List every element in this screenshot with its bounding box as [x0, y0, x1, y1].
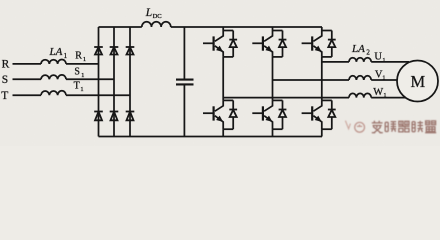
- wire R to bridge leg 1: [66, 63, 99, 65]
- wire bottom junction U-leg upper pair: [223, 56, 233, 58]
- svg-text:W: W: [373, 87, 383, 98]
- IGBT Q5: [252, 100, 272, 129]
- IGBT Q3: [302, 31, 322, 57]
- svg-text:1: 1: [81, 72, 84, 79]
- motor M1 circle: [397, 61, 438, 102]
- wire U-leg bottom-bus drop: [222, 129, 224, 136]
- wire W-leg top-bus drop: [321, 27, 323, 31]
- svg-text:S: S: [2, 74, 8, 86]
- svg-text:1: 1: [382, 57, 385, 64]
- svg-text:T: T: [1, 90, 8, 102]
- IGBT Q4: [203, 100, 223, 129]
- svg-text:1: 1: [83, 56, 86, 63]
- svg-text:R: R: [2, 58, 10, 70]
- inductor LA2 coil on V: [349, 76, 371, 80]
- freewheel diode D9: [328, 31, 336, 57]
- svg-text:1: 1: [64, 52, 68, 60]
- watermark logo check mark: [345, 121, 350, 129]
- wire phase V tap: [273, 79, 350, 81]
- svg-text:2: 2: [366, 49, 370, 57]
- svg-text:DC: DC: [153, 13, 162, 20]
- svg-text:L: L: [145, 7, 152, 19]
- freewheel diode D12: [328, 100, 336, 129]
- wire phase V to motor: [371, 79, 399, 81]
- wire R input line: [13, 63, 42, 65]
- wire bottom junction V-leg upper pair: [273, 56, 283, 58]
- IGBT Q2: [252, 31, 272, 57]
- inductor LA2 coil on W: [349, 93, 371, 97]
- wire top junction W-leg upper pair: [322, 30, 332, 32]
- freewheel diode D11: [279, 100, 287, 129]
- svg-text:LA: LA: [351, 43, 365, 55]
- IGBT Q6: [302, 100, 322, 129]
- svg-text:1: 1: [383, 92, 386, 99]
- inductor LA1 coil on T: [41, 91, 66, 95]
- wire V-leg mid vertical: [272, 57, 274, 101]
- wire top junction U-leg lower pair: [223, 99, 233, 101]
- wire top junction U-leg upper pair: [223, 30, 233, 32]
- wire rectifier leg 1 vertical: [98, 27, 100, 137]
- wire bottom junction U-leg lower pair: [223, 128, 233, 130]
- inductor LA1 coil on S: [41, 75, 66, 79]
- wire V-leg bottom-bus drop: [272, 129, 274, 136]
- freewheel diode D8: [279, 31, 287, 57]
- wire top junction V-leg upper pair: [273, 30, 283, 32]
- wire bottom junction W-leg upper pair: [322, 56, 332, 58]
- wire T input line: [13, 94, 42, 96]
- paper background: [0, 0, 440, 146]
- svg-text:T: T: [74, 81, 80, 92]
- wire top junction V-leg lower pair: [273, 99, 283, 101]
- wire S input line: [13, 78, 42, 80]
- wire phase W tap: [223, 97, 349, 99]
- capacitor C1 branch top wire: [183, 27, 185, 79]
- wire S to bridge leg 2: [66, 78, 114, 80]
- diode D6 bottom leg3: [126, 112, 135, 121]
- wire V-leg top-bus drop: [272, 27, 274, 31]
- wire bottom DC bus: [99, 136, 323, 138]
- wire phase U tap: [322, 61, 349, 63]
- diode D5 bottom leg2: [110, 112, 119, 121]
- svg-text:1: 1: [382, 75, 385, 82]
- wire W-leg mid vertical: [321, 57, 323, 101]
- svg-text:M: M: [410, 72, 425, 91]
- svg-text:S: S: [74, 67, 80, 78]
- freewheel diode D7: [229, 31, 237, 57]
- IGBT Q1: [203, 31, 223, 57]
- svg-text:1: 1: [80, 86, 83, 93]
- wire phase W to motor: [371, 97, 406, 99]
- wire top DC bus left segment: [99, 26, 142, 28]
- wire U-leg top-bus drop: [222, 27, 224, 31]
- inductor LA2 coil on U: [349, 58, 371, 62]
- inductor LA1 coil on R: [41, 60, 66, 64]
- watermark text 变频器联盟 (stylized strokes): [372, 121, 436, 133]
- diode D3 top leg3: [126, 47, 135, 55]
- diode D4 bottom leg1: [94, 112, 103, 121]
- wire W-leg bottom-bus drop: [321, 129, 323, 136]
- diode D2 top leg2: [110, 47, 119, 55]
- capacitor C1 plates: [176, 80, 194, 85]
- inductor LDC coil: [142, 22, 171, 27]
- wire bottom junction W-leg lower pair: [322, 128, 332, 130]
- svg-text:LA: LA: [49, 46, 63, 58]
- wire rectifier leg 2 vertical: [113, 27, 115, 137]
- wire top DC bus right segment: [171, 26, 322, 28]
- freewheel diode D10: [229, 100, 237, 129]
- wire bottom junction V-leg lower pair: [273, 128, 283, 130]
- wire top junction W-leg lower pair: [322, 99, 332, 101]
- svg-text:R: R: [75, 51, 82, 62]
- watermark logo ring: [355, 122, 365, 132]
- wire rectifier leg 3 vertical: [129, 27, 131, 137]
- diode D1 top leg1: [94, 47, 103, 55]
- svg-text:U: U: [374, 52, 382, 63]
- capacitor C1 branch bottom wire: [183, 85, 185, 136]
- wire T to bridge leg 3: [66, 94, 130, 96]
- wire U-leg mid vertical: [222, 57, 224, 101]
- wire phase U to motor: [371, 61, 409, 63]
